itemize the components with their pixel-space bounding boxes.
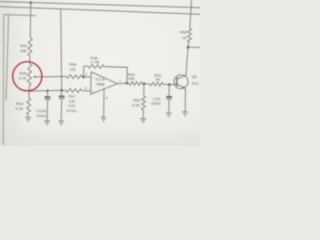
wire: R43 to ground	[27, 115, 29, 118]
ground (R50)	[140, 119, 146, 123]
ground (C22A)	[44, 121, 50, 125]
wire: R46 to op-amp pin 2	[82, 76, 91, 78]
node: collector junction	[187, 46, 190, 49]
svg-text:Q6: Q6	[191, 74, 196, 79]
potentiometer R45 4.7K (vertical, circled)	[27, 64, 31, 86]
svg-text:33K: 33K	[20, 48, 27, 53]
ground (op-amp pin 4)	[101, 117, 107, 121]
wire: R52 to base node	[163, 83, 174, 85]
svg-text:1: 1	[119, 79, 121, 83]
wire: second bus (bias rail)	[0, 6, 208, 14]
node: output/feedback junction	[125, 82, 128, 85]
resistor R50 8.2K (vertical)	[141, 96, 145, 110]
node: C24 junction	[168, 83, 171, 86]
wire: C22A to ground	[46, 100, 49, 121]
ground (emitter)	[182, 112, 188, 116]
wire: op-amp pin4 to ground	[103, 89, 104, 117]
ground (C23)	[58, 121, 64, 125]
svg-text:4.7K: 4.7K	[19, 76, 28, 81]
wire: R55 lower lead	[187, 42, 190, 47]
wire: junction to right edge	[188, 46, 207, 49]
svg-text:4: 4	[105, 96, 107, 100]
resistor R52 5K (horizontal)	[150, 82, 164, 86]
svg-text:33/4V: 33/4V	[151, 101, 162, 106]
svg-text:3: 3	[85, 87, 87, 91]
svg-text:47/9V: 47/9V	[66, 108, 77, 113]
wire: R55 top lead to image top	[190, 0, 192, 28]
resistor R55 1K (vertical)	[187, 28, 191, 42]
resistor R43 4.7K (vertical)	[26, 98, 30, 115]
wire: C23 to ground	[60, 99, 63, 121]
capacitor C23 47/9V (electrolytic)	[59, 95, 65, 97]
svg-text:4558: 4558	[96, 82, 104, 86]
svg-text:10/9V: 10/9V	[36, 113, 47, 118]
svg-text:2: 2	[85, 72, 87, 76]
op-amp IC2-A 4558	[91, 72, 118, 95]
wire: stub to C22A	[46, 91, 48, 97]
wire: bias rail branch down	[58, 9, 64, 91]
wire: R47 to op-amp pin 3	[82, 90, 91, 92]
resistor R44 33K (vertical)	[28, 38, 32, 56]
page edge line	[0, 15, 7, 146]
wire: feedback left leg	[83, 66, 88, 77]
wire: emitter down to ground	[185, 89, 186, 112]
wire: junction down to R50	[143, 84, 145, 96]
capacitor C24 33/4V (electrolytic)	[166, 96, 172, 98]
capacitor C22A 10/9V (electrolytic)	[45, 96, 51, 98]
wiper arrow of R45	[33, 76, 42, 78]
svg-text:1.7M: 1.7M	[90, 59, 99, 64]
wire: bias node to R47	[62, 89, 66, 91]
svg-text:4.7K: 4.7K	[15, 106, 24, 111]
wire: R43 top from node	[28, 91, 30, 98]
transistor Q6 (NPN)	[174, 75, 188, 89]
svg-text:33K: 33K	[128, 76, 135, 81]
svg-text:4TC: 4TC	[191, 81, 199, 86]
block boundary corner	[1, 15, 36, 101]
resistor R48 1.7M (feedback)	[88, 64, 104, 68]
red annotation circle around R45	[13, 62, 42, 91]
wire: R50 to ground	[142, 110, 144, 119]
wire: R44 to R45	[29, 56, 31, 64]
resistor R46 12k (horizontal)	[66, 75, 82, 79]
wire: feedback right leg	[104, 67, 128, 84]
wire: stub to C23	[60, 90, 62, 95]
ground (left chain)	[25, 117, 31, 121]
wire: R49 to junction	[142, 83, 149, 85]
resistor R49 33K (horizontal)	[129, 81, 142, 85]
svg-text:IC2-A: IC2-A	[95, 77, 105, 81]
svg-text:12k: 12k	[69, 66, 75, 71]
wire: op-amp output	[117, 83, 129, 84]
wire: wiper to R46	[42, 76, 67, 78]
ground (C24)	[166, 113, 172, 117]
node: bias node dot	[60, 89, 63, 92]
svg-text:1K: 1K	[182, 35, 187, 40]
wire: bus dot down to R44	[30, 3, 32, 38]
svg-text:8.2K: 8.2K	[132, 102, 141, 107]
wire: collector up to junction and R55	[186, 47, 188, 75]
resistor R47 12k (horizontal)	[66, 88, 82, 92]
node: R50 junction	[143, 82, 146, 85]
svg-text:5K: 5K	[156, 77, 161, 82]
wire: stub to C24	[168, 85, 170, 96]
wire: R45 bottom to node	[28, 86, 30, 91]
wire: C24 to ground	[168, 99, 171, 113]
node: feedback joins inverting input	[82, 76, 85, 79]
node: junction dot on top bus feeding R44 chain	[29, 1, 32, 4]
wire: top supply bus	[0, 1, 208, 7]
wire: divider node to bias node	[29, 89, 61, 92]
